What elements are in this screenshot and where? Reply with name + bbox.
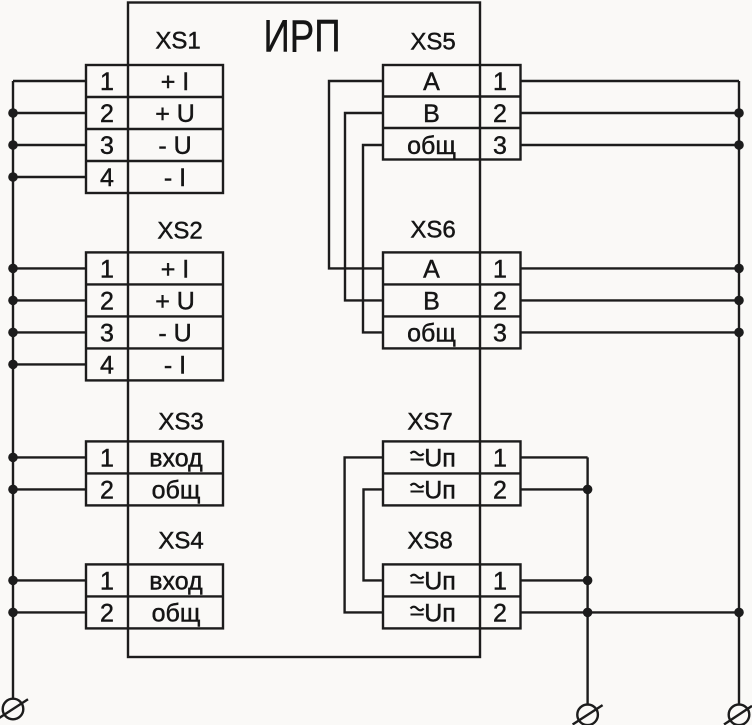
junction dot XS2.1 (8, 264, 18, 274)
svg-text:XS1: XS1 (155, 27, 200, 54)
wire XS7 pin1 to mid bus (521, 456, 588, 458)
wire XS8 pin1 (521, 579, 588, 581)
svg-text:2: 2 (493, 476, 507, 504)
XS6 pin 1 (423, 255, 507, 283)
svg-text:2: 2 (493, 599, 507, 627)
connector XS1 table (86, 65, 223, 193)
svg-text:2: 2 (100, 476, 114, 504)
symbol ≃ for XS7 pin1 (411, 452, 424, 460)
svg-text:2: 2 (493, 100, 507, 128)
junction dot XS6.1 (734, 264, 744, 274)
svg-text:+ I: + I (161, 68, 190, 96)
wire XS8 pin2 (521, 611, 588, 613)
symbol ≃ for XS7 pin2 (411, 484, 424, 492)
junction dot XS8.2 (583, 608, 593, 618)
svg-text:XS4: XS4 (158, 527, 203, 554)
XS3 pin 2 (100, 476, 200, 504)
XS4 pin 1 (100, 567, 203, 595)
connector XS7 table (383, 441, 521, 505)
XS2 pin 4 (100, 351, 186, 379)
XS6 pin 2 (423, 287, 507, 315)
XS1 pin 2 (100, 100, 195, 128)
XS3 pin 1 (100, 444, 203, 472)
svg-text:Uп: Uп (424, 476, 456, 504)
wire XS3 pin2 (13, 488, 86, 490)
svg-text:XS8: XS8 (407, 527, 452, 554)
XS4 pin 2 (100, 599, 200, 627)
junction dot XS6.3 (734, 328, 744, 338)
svg-text:А: А (423, 68, 440, 96)
hook wire XS7.1-XS8.2 (345, 457, 383, 612)
svg-text:общ: общ (152, 599, 201, 627)
hook wire XS5.3-XS6.3 (363, 145, 383, 332)
svg-text:XS3: XS3 (158, 408, 203, 435)
wire XS4 pin1 (13, 579, 86, 581)
junction dot XS5.2 (734, 108, 744, 118)
svg-text:А: А (423, 255, 440, 283)
svg-text:вход: вход (149, 444, 203, 472)
svg-text:2: 2 (100, 287, 114, 315)
wire XS2 pin1 (13, 267, 86, 269)
wire XS5 pin1 to right bus (521, 80, 740, 82)
junction dot XS1.3 (8, 140, 18, 150)
svg-text:В: В (423, 100, 440, 128)
XS5 pin 1 (423, 68, 507, 96)
connector XS4 table (86, 564, 223, 628)
junction dot XS1.4 (8, 172, 18, 182)
svg-text:- I: - I (164, 351, 186, 379)
svg-text:1: 1 (100, 567, 114, 595)
svg-text:ИРП: ИРП (264, 11, 341, 62)
junction dot XS2.4 (8, 360, 18, 370)
connector XS3 table (86, 441, 223, 505)
XS5 pin 2 (423, 100, 507, 128)
junction dot XS2.2 (8, 296, 18, 306)
svg-text:1: 1 (100, 68, 114, 96)
svg-text:1: 1 (100, 255, 114, 283)
svg-text:4: 4 (100, 351, 114, 379)
svg-text:2: 2 (100, 599, 114, 627)
connector XS8 table (383, 564, 521, 628)
junction dot XS2.3 (8, 328, 18, 338)
svg-text:XS7: XS7 (407, 408, 452, 435)
connector XS2 table (86, 252, 223, 380)
wire XS1 pin2 (13, 112, 86, 114)
wire XS5 pin3 (521, 144, 740, 146)
junction dot XS4.1 (8, 576, 18, 586)
svg-text:XS5: XS5 (410, 28, 455, 55)
svg-text:4: 4 (100, 164, 114, 192)
XS1 pin 3 (100, 132, 192, 160)
svg-text:+ I: + I (161, 255, 190, 283)
XS6 pin 3 (407, 319, 507, 347)
svg-text:XS6: XS6 (410, 216, 455, 243)
junction dot XS5.3 (734, 140, 744, 150)
svg-text:+ U: + U (155, 100, 195, 128)
XS7 pin 2 (424, 476, 507, 504)
terminal clamp right (724, 705, 752, 725)
svg-text:Uп: Uп (424, 444, 456, 472)
svg-text:3: 3 (493, 319, 507, 347)
left bus wire (12, 81, 14, 699)
XS1 pin 1 (100, 68, 189, 96)
wire XS4 pin2 (13, 611, 86, 613)
svg-text:1: 1 (493, 68, 507, 96)
svg-text:3: 3 (100, 132, 114, 160)
terminal clamp left (0, 699, 28, 720)
junction dot XS4.2 (8, 608, 18, 618)
svg-text:В: В (423, 287, 440, 315)
wire XS3 pin1 (13, 456, 86, 458)
junction dot XS8.1 (583, 576, 593, 586)
svg-text:2: 2 (493, 287, 507, 315)
wire XS1 pin3 (13, 144, 86, 146)
svg-text:3: 3 (100, 319, 114, 347)
wire XS2 pin3 (13, 331, 86, 333)
svg-text:общ: общ (152, 476, 201, 504)
symbol ≃ for XS8 pin2 (411, 607, 424, 615)
svg-text:- I: - I (164, 164, 186, 192)
junction dot XS3.2 (8, 485, 18, 495)
svg-text:+ U: + U (155, 287, 195, 315)
svg-text:1: 1 (493, 255, 507, 283)
wire XS1 pin1 to left bus (13, 80, 86, 82)
XS5 pin 3 (407, 132, 507, 160)
wire XS6 pin2 (521, 299, 740, 301)
svg-text:Uп: Uп (424, 599, 456, 627)
junction dot right bus cross (734, 608, 744, 618)
svg-text:общ: общ (407, 319, 456, 347)
svg-text:вход: вход (149, 567, 203, 595)
svg-text:1: 1 (100, 444, 114, 472)
terminal clamp middle (573, 705, 603, 725)
svg-text:2: 2 (100, 100, 114, 128)
svg-text:общ: общ (407, 132, 456, 160)
junction dot XS1.2 (8, 108, 18, 118)
wire XS6 pin3 (521, 331, 740, 333)
junction dot XS3.1 (8, 453, 18, 463)
svg-text:1: 1 (493, 567, 507, 595)
connector XS6 table (383, 252, 521, 348)
XS2 pin 3 (100, 319, 192, 347)
XS1 pin 4 (100, 164, 186, 192)
XS8 pin 1 (424, 567, 507, 595)
wire XS6 pin1 (521, 267, 740, 269)
svg-text:- U: - U (158, 319, 191, 347)
wire XS5 pin2 (521, 112, 740, 114)
device box ИРП (128, 3, 480, 658)
svg-text:Uп: Uп (424, 567, 456, 595)
XS7 pin 1 (424, 444, 507, 472)
right bus wire (738, 81, 740, 705)
wire XS2 pin2 (13, 299, 86, 301)
junction dot XS6.2 (734, 296, 744, 306)
wire XS2 pin4 (13, 363, 86, 365)
connector XS5 table (383, 65, 521, 160)
svg-text:3: 3 (493, 132, 507, 160)
junction dot XS7.2 (583, 485, 593, 495)
svg-text:XS2: XS2 (157, 217, 202, 244)
wire XS7 pin2 (521, 488, 588, 490)
symbol ≃ for XS8 pin1 (411, 575, 424, 583)
hook wire XS5.1-XS6.1 (329, 81, 383, 268)
mid bus wire (586, 457, 588, 704)
XS8 pin 2 (424, 599, 507, 627)
XS2 pin 2 (100, 287, 195, 315)
hook wire XS5.2-XS6.2 (345, 113, 383, 300)
svg-text:- U: - U (158, 132, 191, 160)
XS2 pin 1 (100, 255, 189, 283)
cross wire mid bus to right bus (588, 611, 739, 613)
svg-text:1: 1 (493, 444, 507, 472)
wire XS1 pin4 (13, 176, 86, 178)
hook wire XS7.2-XS8.1 (364, 489, 384, 580)
